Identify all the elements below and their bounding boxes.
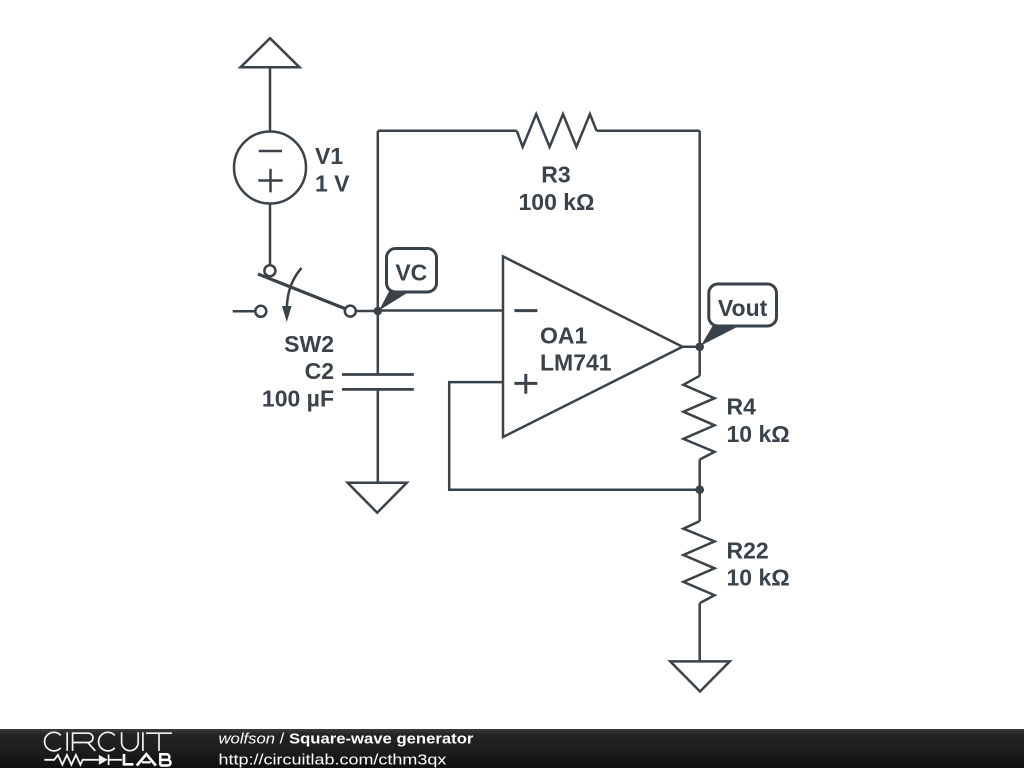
resistor R4 <box>683 376 714 460</box>
footer bar <box>0 729 1024 768</box>
svg-text:1 V: 1 V <box>315 170 350 196</box>
net label VC <box>379 249 437 311</box>
svg-text:10 kΩ: 10 kΩ <box>727 421 790 447</box>
wire feedback loop left vertical <box>377 131 380 311</box>
node Vout junction dot <box>695 343 704 352</box>
wire op-amp output <box>683 346 700 349</box>
wire V1 to switch <box>269 204 272 266</box>
svg-text:R4: R4 <box>727 393 757 419</box>
wire right vertical down to output node <box>698 131 701 347</box>
svg-text:VC: VC <box>395 259 427 285</box>
net label Vout <box>701 284 777 346</box>
resistor R22 <box>683 521 714 603</box>
wire node to capacitor C2 <box>377 311 380 374</box>
svg-text:10 kΩ: 10 kΩ <box>727 564 790 590</box>
wire R22 to ground <box>698 603 701 661</box>
ground (below R22) <box>670 661 730 691</box>
wire switch to node VC <box>356 310 378 313</box>
svg-text:R22: R22 <box>727 537 769 563</box>
svg-text:100 µF: 100 µF <box>262 385 334 411</box>
svg-text:100 kΩ: 100 kΩ <box>519 189 595 215</box>
logo resistor-diode symbol <box>44 755 122 766</box>
svg-text:V1: V1 <box>315 143 343 169</box>
wire output down to R4 <box>698 347 701 376</box>
wire top to R3 <box>378 130 517 133</box>
ground (below C2) <box>348 483 407 513</box>
svg-text:OA1: OA1 <box>540 322 588 348</box>
wire R3 to output branch <box>597 130 700 133</box>
logo LAB lettering <box>124 754 171 766</box>
resistor R3 <box>517 114 597 147</box>
wire node VC to op-amp minus input <box>378 309 503 312</box>
svg-text:wolfson / Square-wave generato: wolfson / Square-wave generator <box>219 730 474 747</box>
voltage source V1 <box>234 132 306 204</box>
svg-text:C2: C2 <box>305 358 334 384</box>
svg-text:http://circuitlab.com/cthm3qx: http://circuitlab.com/cthm3qx <box>219 752 447 768</box>
node feedback junction dot <box>695 485 704 494</box>
wire R4 to junction <box>698 460 701 522</box>
op-amp OA1 <box>503 256 683 437</box>
switch SW2 <box>233 265 356 322</box>
svg-text:R3: R3 <box>541 162 570 188</box>
node VC junction dot <box>374 307 383 316</box>
capacitor C2 <box>342 375 414 390</box>
logo CIRCUIT lettering <box>45 732 172 751</box>
power supply V+ symbol <box>241 38 300 131</box>
svg-text:Vout: Vout <box>718 295 768 321</box>
svg-text:SW2: SW2 <box>284 331 334 357</box>
wire C2 to ground <box>377 389 380 482</box>
wire plus input <box>449 382 700 490</box>
svg-text:LM741: LM741 <box>540 349 612 375</box>
